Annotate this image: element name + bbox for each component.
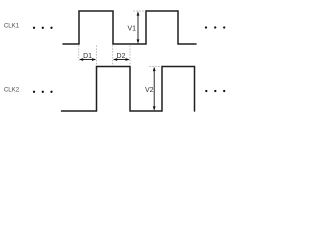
extension line at CLK1 rising edge (D1 left) [78, 46, 80, 61]
extension line at CLK2 falling edge (D2 right) [129, 46, 131, 66]
wire CLK2 waveform [62, 67, 195, 112]
dimension arrow D1 [79, 58, 96, 61]
svg-text:CLK2: CLK2 [4, 87, 20, 94]
CLK1 right continuation dots [205, 26, 226, 28]
dimension arrow V1 [137, 11, 140, 43]
svg-text:V2: V2 [145, 87, 154, 94]
wire CLK1 waveform [63, 11, 196, 44]
svg-text:D2: D2 [117, 53, 126, 60]
dimension arrow V2 [153, 67, 156, 111]
extension line at CLK2 high level (V2 top) [150, 66, 162, 68]
svg-text:CLK1: CLK1 [4, 23, 20, 30]
CLK2 left continuation dots [33, 91, 53, 93]
extension line at CLK2 rising edge (D1 right) [96, 46, 98, 66]
CLK1 left continuation dots [33, 27, 53, 29]
extension line at CLK1 falling edge (D2 left) [112, 46, 114, 66]
dimension arrow D2 [113, 58, 130, 61]
CLK2 right continuation dots [205, 90, 225, 92]
extension line at CLK1 high level (V1 top) [134, 10, 146, 12]
svg-text:V1: V1 [127, 26, 136, 33]
svg-text:D1: D1 [83, 53, 92, 60]
